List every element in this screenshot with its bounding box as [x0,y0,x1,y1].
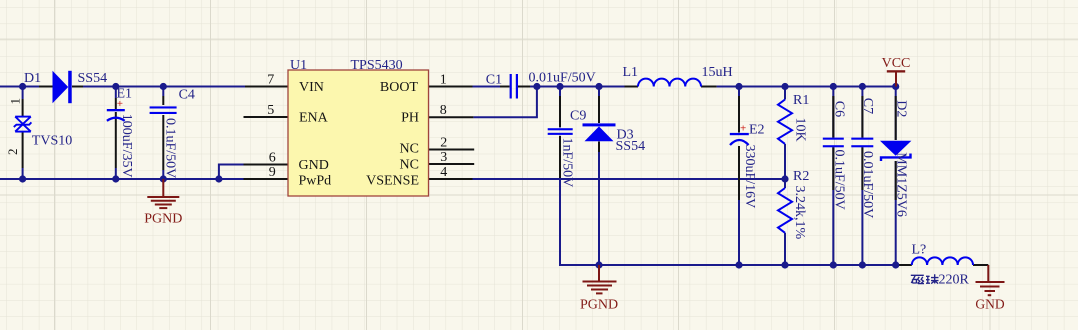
pin U1-7 [245,86,288,88]
node R1/R2 VSENSE [781,175,788,182]
svg-text:VCC: VCC [882,56,911,71]
pin D1 anode [39,86,53,88]
svg-text:C7: C7 [860,98,875,114]
svg-text:L?: L? [912,243,927,258]
resistor R1 [778,100,792,144]
resistor R2 [778,188,792,233]
pin C4 [162,96,164,105]
svg-text:PH: PH [401,111,419,126]
svg-text:0.01uF/50V: 0.01uF/50V [860,151,875,218]
svg-text:E2: E2 [749,122,765,137]
pin bead right [973,264,988,266]
wire D3 column top [598,87,600,99]
svg-text:3.24k,1%: 3.24k,1% [792,186,807,240]
svg-text:6: 6 [269,150,276,165]
node C6 bottom [830,261,837,268]
svg-text:SS54: SS54 [78,71,108,86]
capacitor E2 (electrolytic) [730,133,749,145]
pin D1 cathode [72,86,83,88]
svg-text:MM1Z5V6: MM1Z5V6 [894,152,909,217]
svg-text:R1: R1 [793,93,809,108]
svg-text:D1: D1 [24,71,41,86]
wire C7 column [861,87,863,138]
svg-text:PwPd: PwPd [299,173,332,188]
node R1 top [781,83,788,90]
wire pin1 BOOT to C1 [473,86,501,88]
wire pin6 elbow [219,165,244,180]
pin TVS 2 [22,132,24,168]
wire E1 column top [115,87,117,99]
wire D3 column bottom [598,152,600,265]
pin C6 [832,96,834,138]
svg-text:C6: C6 [832,101,847,117]
pin C1 left [500,86,510,88]
svg-text:GND: GND [975,297,1004,312]
pin U1-1 [429,86,473,88]
svg-text:5: 5 [267,103,274,118]
svg-text:1nF/50V: 1nF/50V [560,138,575,188]
wire C4 column top [162,87,164,97]
pin U1-2 [427,149,474,151]
diode D1 SS54 [53,71,72,103]
capacitor C6 [823,138,844,148]
node C4/PGND bottom [160,175,167,182]
svg-text:BOOT: BOOT [380,80,419,95]
pin C9 bottom [559,136,561,178]
pin D2 [895,96,897,140]
pin D3 bottom [598,142,600,153]
wire bottom right rail [559,264,897,266]
inductor L1 [638,79,701,87]
svg-text:VIN: VIN [299,80,324,95]
node D3/PGND bottom [595,261,602,268]
diode D3 SS54 [583,123,616,141]
svg-text:D2: D2 [894,100,909,117]
ground PGND right [583,265,617,293]
node E1 bottom [112,175,119,182]
capacitor C9 [548,128,573,135]
node C9 top [556,83,563,90]
node E2 bottom [735,261,742,268]
capacitor C4 [150,106,177,114]
svg-text:3: 3 [440,150,447,165]
pin D3 top [598,96,600,123]
svg-text:220R: 220R [939,273,970,288]
node D1/TVS [19,83,26,90]
wire D2 column [895,87,897,141]
node VCC/D2 [892,83,899,90]
wire PH elbow [473,87,537,117]
pin L1 right [701,86,717,88]
svg-text:NC: NC [400,157,419,172]
wire E2 column [738,87,740,133]
svg-text:GND: GND [299,158,329,173]
svg-text:C9: C9 [570,109,586,124]
pin E2 bottom [738,146,740,200]
ferrite bead L? [912,257,973,265]
svg-text:TVS10: TVS10 [32,134,72,149]
svg-text:VSENSE: VSENSE [366,174,419,189]
svg-text:SS54: SS54 [616,139,646,154]
svg-text:0.1uF/50V: 0.1uF/50V [163,118,178,178]
wire C6 column [832,87,834,138]
svg-text:R2: R2 [793,169,809,184]
IC U1 TPS5430 body [288,70,429,196]
power port VCC [882,56,911,87]
node D2/bead [892,261,899,268]
pin U1-6 [244,164,289,166]
node pin6 elbow [215,175,222,182]
zener diode D2 MM1Z5V6 [880,141,911,161]
ground PGND left [147,179,179,208]
svg-text:10K: 10K [793,118,808,142]
pin U1-5 [244,116,289,118]
pin C9 top [559,96,561,127]
node E2 top [735,83,742,90]
node TVS bottom [19,175,26,182]
svg-text:L1: L1 [623,65,639,80]
pin C7 [861,96,863,138]
svg-text:ENA: ENA [299,111,329,126]
wire L1 to VCC corner [717,86,896,88]
node D3 top [595,83,602,90]
svg-text:330uF/16V: 330uF/16V [742,145,757,209]
node E1 top [112,83,119,90]
wire bottom-left rail [0,178,244,180]
svg-text:PGND: PGND [580,297,618,312]
pin E2 top [738,96,740,133]
svg-text:PGND: PGND [144,211,182,226]
svg-text:0.01uF/50V: 0.01uF/50V [529,71,596,86]
pin bead left [897,264,912,266]
svg-text:+: + [117,98,123,110]
node C6 top [830,83,837,90]
svg-text:15uH: 15uH [702,65,733,80]
svg-text:2: 2 [5,149,20,156]
svg-text:0.1uF/50V: 0.1uF/50V [832,150,847,210]
capacitor C1 [510,74,518,99]
svg-text:8: 8 [440,103,447,118]
svg-text:TPS5430: TPS5430 [351,58,403,73]
svg-text:100uF/35V: 100uF/35V [119,114,134,178]
wire VSENSE feedback [473,178,786,180]
wire R1 R2 column [784,87,786,100]
svg-text:U1: U1 [290,58,307,73]
node C7 top [859,83,866,90]
node C7 bottom [859,261,866,268]
capacitor E1 (electrolytic) [107,109,125,121]
ground GND right [976,265,1005,295]
wire C4 column bottom [162,170,164,179]
wire D1 cathode to C4/pin7 [83,86,245,88]
pin U1-4 [427,178,473,180]
pin U1-8 [429,116,474,118]
TVS diode TVS10 [14,117,32,132]
wire TVS column [22,87,24,100]
pin U1-9 [244,178,289,180]
svg-text:1: 1 [8,98,23,105]
wire top-left rail input [0,86,39,88]
pin L1 left [625,86,639,88]
wire C1 to junction and L1 [530,86,625,88]
node C4 top [160,83,167,90]
pin C1 right [518,86,530,88]
svg-text:NC: NC [400,141,419,156]
pin U1-3 [427,163,474,165]
svg-text:C1: C1 [486,72,502,87]
svg-text:C4: C4 [179,88,195,103]
capacitor C7 [851,138,873,148]
svg-text:4: 4 [440,165,447,180]
svg-text:+: + [740,123,746,135]
svg-text:7: 7 [267,72,274,87]
label 磁珠 (drawn strokes) [911,274,939,283]
wire C9 column [559,87,561,128]
svg-text:9: 9 [269,165,276,180]
node R2 bottom [781,261,788,268]
pin E1 [115,98,117,109]
node C1/PH junction [533,83,540,90]
pin TVS 1 [22,99,24,116]
svg-text:2: 2 [440,135,447,150]
wire E1 column bottom [115,168,117,179]
svg-text:1: 1 [440,72,447,87]
